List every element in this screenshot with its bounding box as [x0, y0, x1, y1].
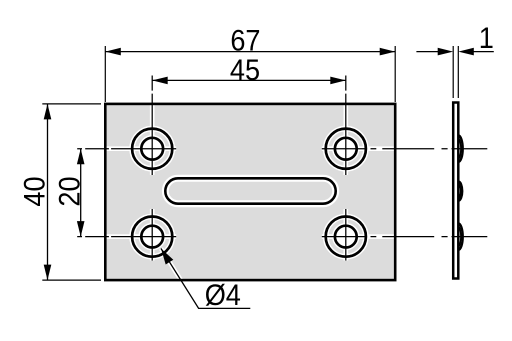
plate front view fill [105, 104, 395, 280]
dimension 40: arrowheads [44, 104, 52, 120]
dimension 45: arrowheads [152, 77, 168, 85]
hole H2 halo (top-right) [326, 129, 366, 169]
dimension 40: line [47, 104, 49, 280]
dimension 1: extension lines [453, 46, 458, 98]
hole H4 bore [335, 226, 357, 248]
centerline white casings [77, 76, 434, 309]
centerline: bottom hole row, right (chain line to side view) [322, 236, 448, 238]
centerline: top hole row, left (chain line) [77, 148, 176, 150]
leader arrowhead [161, 249, 173, 265]
side view bump bottom [458, 223, 462, 249]
dimension 45: line [152, 79, 346, 81]
dimension 67: arrowheads [105, 48, 121, 56]
side view centerlines crossing [452, 149, 488, 237]
leader for hole diameter [161, 249, 250, 309]
hole halos (white casing around hole circles) [132, 129, 366, 257]
slot outline [165, 178, 335, 203]
hole bores (white discs) [141, 138, 356, 248]
dimension 67: line [105, 51, 395, 53]
svg-text:Ø4: Ø4 [205, 279, 241, 312]
svg-text:40: 40 [19, 176, 52, 206]
hole H1 bore [141, 138, 163, 160]
casing for diameter leader [161, 249, 199, 309]
dimension 1: right arrow + tail [473, 51, 494, 53]
svg-text:45: 45 [230, 54, 260, 87]
centerline: bottom hole row, left (chain line) [77, 236, 176, 238]
dimension 20: arrowheads [77, 149, 85, 165]
hole H2 bore [335, 138, 357, 160]
hole H3 halo (bottom-left) [132, 217, 172, 257]
centerline: vertical axes of holes H3 H4 [152, 209, 346, 261]
svg-text:1: 1 [479, 22, 494, 55]
dimension 20: line [80, 149, 82, 237]
slot (rounded) white halo [165, 178, 335, 203]
dimension 40: extension lines [42, 104, 101, 280]
hole H2 (top-right, countersink + bore circles) [326, 129, 366, 169]
hole H3 bore [141, 226, 163, 248]
hole H4 halo (bottom-right) [326, 217, 366, 257]
hole H1 halo (top-left) [132, 129, 172, 169]
hole H4 (bottom-right, countersink + bore circles) [326, 217, 366, 257]
centerline: vertical axes of holes H1 H2 [152, 76, 346, 176]
svg-text:20: 20 [54, 176, 87, 206]
hole H3 (bottom-left, countersink + bore circles) [132, 217, 172, 257]
centerline: top hole row, right (chain line to side view) [322, 148, 448, 150]
plate outline [105, 104, 395, 280]
side view bump middle [458, 182, 462, 201]
dimension 1: left tail + arrow [416, 51, 438, 53]
casing for hole centerlines [77, 76, 434, 261]
side view body [453, 103, 458, 279]
hole H1 (top-left, countersink + bore circles) [132, 129, 172, 169]
dimension 1: left arrowhead [438, 48, 454, 56]
dimension 67: extension lines [105, 46, 395, 102]
side view bump top [458, 136, 462, 162]
dimension 1: right arrowhead [458, 48, 474, 56]
